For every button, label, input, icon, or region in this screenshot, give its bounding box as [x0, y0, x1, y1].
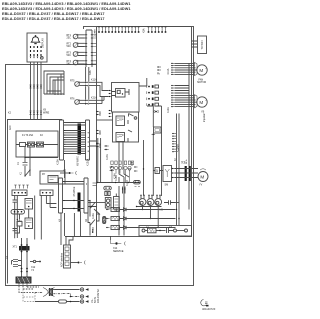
K13 switch B	[90, 220, 95, 236]
svg-text:M: M	[199, 100, 203, 105]
ladder 2 rungs	[63, 182, 85, 209]
oval connector	[11, 210, 25, 215]
louver motor M3	[198, 172, 208, 182]
ladder 2 labels	[59, 186, 89, 222]
sensor feed wires	[96, 82, 109, 103]
PCB top connector row group 2	[147, 27, 166, 32]
opto symbol	[153, 110, 158, 112]
enclosure outline	[6, 27, 194, 286]
sensor RT4 wires	[78, 61, 85, 64]
right mid pin header	[172, 134, 176, 152]
pin pair	[123, 187, 126, 194]
ladder1 to PCB stubs	[90, 141, 97, 146]
fuse section box	[16, 131, 58, 157]
svg-text:1a wire: 1a wire	[94, 29, 97, 37]
bus stub pins	[93, 183, 97, 186]
svg-text:TO WIFI: TO WIFI	[201, 40, 204, 49]
swing motor driver box	[163, 166, 172, 182]
feeder box	[154, 127, 162, 133]
pin strip row	[14, 185, 28, 189]
relay RY2	[116, 133, 125, 142]
svg-text:EDLA-D3V37 / EDLA-DV37 / EDLA-: EDLA-D3V37 / EDLA-DV37 / EDLA-D3W17 / ED…	[2, 17, 105, 21]
svg-text:M: M	[199, 68, 203, 73]
display wires down	[31, 62, 42, 120]
cap C2	[13, 200, 18, 202]
sensor RT5 wires	[79, 82, 87, 85]
ADF connector box	[64, 245, 71, 268]
driver row 2	[106, 218, 110, 220]
svg-text:SM: SM	[165, 184, 169, 187]
ribbon ladder 2 bar	[78, 193, 81, 212]
field wiring dashes	[19, 283, 39, 292]
center vertical feeders	[147, 106, 162, 196]
sensor RT4	[73, 60, 78, 65]
svg-text:K14A: K14A	[167, 68, 170, 74]
ADF feed wires	[66, 237, 73, 246]
svg-text:ADF: ADF	[9, 125, 12, 130]
bottom edge stubs	[93, 229, 111, 240]
top row label	[143, 28, 146, 33]
display unit box	[27, 33, 47, 62]
supply line PE	[35, 301, 80, 303]
svg-text:EBLA09-14D3V3 / EBLA09-14DV3 /: EBLA09-14D3V3 / EBLA09-14DV3 / EBLA09-14…	[2, 2, 131, 6]
driver row 1	[106, 209, 110, 211]
svg-text:K3A: K3A	[89, 70, 92, 75]
sensor RT6	[75, 100, 80, 105]
svg-text:54C: 54C	[67, 63, 72, 66]
pin pair K18	[110, 167, 115, 171]
driver row 3	[106, 227, 110, 229]
relay RY3	[25, 199, 33, 210]
switch in box B	[129, 114, 134, 117]
svg-text:DISPLAY: DISPLAY	[42, 38, 45, 48]
display ribbon strips	[31, 46, 42, 56]
ribbon rungs	[64, 131, 86, 154]
svg-text:K5A: K5A	[143, 28, 146, 33]
capacitor C1	[23, 163, 28, 166]
jumper oval J1	[104, 186, 112, 190]
ribbon arrows	[30, 57, 39, 59]
aux switch	[94, 209, 100, 215]
fan motor M1	[197, 65, 207, 75]
PCB bottom section box	[139, 226, 192, 237]
side plug	[30, 261, 33, 263]
ribbon ladder 1 bar	[78, 124, 82, 155]
svg-text:40114072F: 40114072F	[202, 307, 216, 311]
strip tail wires	[86, 67, 89, 99]
triac T3	[155, 199, 162, 206]
module input pins	[109, 91, 112, 97]
svg-text:220-240V AC: 220-240V AC	[97, 289, 100, 303]
mains terminal block	[16, 277, 31, 283]
main PCB outline	[97, 27, 192, 237]
strip label	[94, 29, 97, 37]
svg-text:K10A: K10A	[57, 159, 60, 165]
bottom row parts	[142, 229, 145, 232]
cap on bus	[164, 200, 175, 205]
svg-text:SERVICE: SERVICE	[113, 250, 124, 253]
driver side box	[114, 197, 120, 210]
svg-text:X6 WIRE: X6 WIRE	[77, 156, 80, 166]
pump motor M2	[197, 97, 207, 107]
fan motor wires	[175, 63, 197, 74]
sensor RT5	[75, 82, 80, 87]
right bus lines	[177, 114, 180, 226]
driver box pins	[172, 169, 175, 178]
ladder 1 labels	[57, 156, 90, 166]
svg-text:25C: 25C	[67, 37, 72, 40]
cap C3	[13, 229, 18, 231]
X3 connector bars	[185, 166, 187, 181]
svg-text:K9A: K9A	[99, 111, 102, 116]
left edge pin group K9	[96, 112, 100, 115]
triac T1	[139, 199, 146, 206]
X3 wires	[175, 169, 199, 178]
small resistor	[20, 143, 26, 147]
pipe sensor RT2	[73, 43, 78, 48]
switch K1	[25, 170, 30, 176]
pins near opto rows	[157, 67, 161, 70]
svg-text:RT6: RT6	[70, 98, 75, 101]
sensor RT6 wires	[79, 100, 87, 103]
box B pins	[109, 111, 112, 117]
e-box right edge	[61, 160, 65, 245]
left interior verticals	[98, 138, 101, 183]
svg-text:RY: RY	[42, 173, 46, 176]
fuse F2	[37, 142, 44, 147]
analog bus rail	[97, 182, 141, 184]
svg-text:54C: 54C	[67, 54, 72, 57]
svg-text:F1 T3.15A: F1 T3.15A	[22, 134, 34, 137]
terminal strip B	[40, 190, 53, 196]
pin pair K17	[104, 146, 109, 150]
aux pin header	[171, 86, 175, 94]
svg-text:RV: RV	[156, 169, 159, 173]
pump motor pin header	[171, 96, 175, 107]
inner e-box	[8, 120, 63, 284]
left edge pin group K7	[96, 144, 100, 147]
cap C4	[13, 260, 18, 262]
sensor RT2 wires	[78, 43, 85, 46]
supply line N dash-dot	[35, 292, 80, 296]
bottom-right brand mark	[201, 300, 208, 306]
PCB top connector row group 1	[98, 27, 140, 32]
svg-text:K13B: K13B	[92, 227, 95, 233]
supply line L	[49, 288, 80, 291]
svg-text:K8A: K8A	[99, 130, 102, 135]
relay box B	[113, 112, 139, 142]
svg-text:K11A: K11A	[91, 79, 97, 82]
svg-text:K21A: K21A	[91, 97, 97, 100]
divider network group 1	[110, 161, 121, 183]
wifi wires	[192, 41, 198, 47]
svg-text:YB: YB	[201, 111, 205, 114]
display wire connector row 2	[29, 111, 42, 115]
open connector to remote	[60, 172, 69, 174]
opto rows	[146, 85, 148, 106]
divider network group 2	[124, 161, 134, 183]
varistor wires	[25, 147, 58, 176]
svg-text:54C: 54C	[67, 45, 72, 48]
triac T2	[147, 199, 154, 206]
relay coil pair	[105, 198, 111, 209]
sensor RT3	[73, 52, 78, 57]
X3 connector label	[181, 160, 188, 166]
ribbon ladder 1 right column	[86, 120, 90, 160]
buzzer icon	[31, 37, 40, 42]
model list header	[2, 2, 131, 21]
svg-text:Injection: Injection	[203, 112, 206, 122]
display box label	[42, 38, 45, 48]
sensor RT1 wires	[78, 35, 85, 38]
connector labels	[8, 109, 50, 115]
jumper oval J2	[134, 181, 141, 184]
wire routing frames	[44, 71, 64, 94]
junction dots	[21, 268, 28, 273]
pump motor wires	[175, 96, 197, 107]
wires from box B down	[119, 142, 124, 236]
thermal fuse	[17, 219, 22, 221]
svg-text:MOTOR: MOTOR	[197, 81, 206, 84]
svg-text:RT5: RT5	[70, 80, 75, 83]
display wire connector row 1	[29, 85, 42, 88]
svg-text:XT1: XT1	[13, 246, 18, 249]
K13 switch A	[90, 201, 95, 217]
svg-text:K18A: K18A	[114, 173, 117, 179]
strip to PCB stubs	[93, 35, 96, 64]
svg-text:M: M	[200, 174, 204, 179]
module inner part	[116, 89, 126, 98]
sense resistor	[97, 214, 100, 221]
left section wires	[15, 196, 50, 239]
swing motor label box	[155, 168, 160, 174]
line filter transformer	[43, 288, 55, 297]
svg-text:K17A: K17A	[106, 154, 109, 160]
svg-text:K10LA: K10LA	[87, 158, 90, 166]
triac bottom rail	[137, 206, 162, 208]
service connector X14	[115, 242, 117, 244]
wifi module box	[198, 36, 207, 54]
sensor RT3 wires	[78, 52, 85, 55]
fuse F1	[28, 142, 35, 147]
pump connector bracket	[195, 95, 198, 108]
svg-text:WIRE: WIRE	[43, 112, 50, 115]
fan motor pin header	[171, 63, 175, 74]
lower tie wires	[65, 212, 97, 237]
ribbon ladder 1 left column	[60, 120, 64, 160]
relay RY4	[25, 218, 33, 229]
svg-text:K13A: K13A	[92, 213, 95, 219]
relay box K2	[40, 171, 65, 184]
terminal XT	[19, 246, 30, 251]
fuse capsule	[103, 217, 106, 224]
ribbon ladder 2 right column	[84, 178, 88, 213]
terminal strip A	[12, 190, 27, 196]
ribbon ladder 2 left column	[59, 178, 63, 213]
supply label	[91, 289, 100, 303]
K15 switches	[119, 166, 124, 182]
indicator circle	[40, 56, 43, 59]
svg-text:EBLA-D3V37 / EBLA-DV37 / EBLA-: EBLA-D3V37 / EBLA-DV37 / EBLA-D3W17 / EB…	[2, 12, 105, 16]
room sensor RT1	[73, 34, 78, 39]
svg-text:EDLA09-14D3V3 / EDLA09-14DV3 /: EDLA09-14D3V3 / EDLA09-14DV3 / EDLA09-14…	[2, 7, 131, 11]
svg-text:X5 WIRE: X5 WIRE	[73, 186, 76, 196]
cap C5	[13, 265, 18, 267]
ADF plug	[71, 262, 78, 264]
svg-text:ADF wireless: ADF wireless	[61, 252, 64, 267]
left edge pin group K8	[96, 131, 100, 134]
aux wires	[175, 63, 189, 166]
sensor connector strip	[86, 30, 92, 67]
svg-text:K12A: K12A	[167, 107, 170, 113]
fan motor connector bracket	[195, 62, 198, 75]
power module box	[112, 83, 140, 113]
svg-text:YV: YV	[199, 184, 203, 187]
relay RY1	[116, 116, 125, 126]
K16 pins	[134, 167, 138, 171]
feeder vertical from relay	[143, 140, 145, 196]
